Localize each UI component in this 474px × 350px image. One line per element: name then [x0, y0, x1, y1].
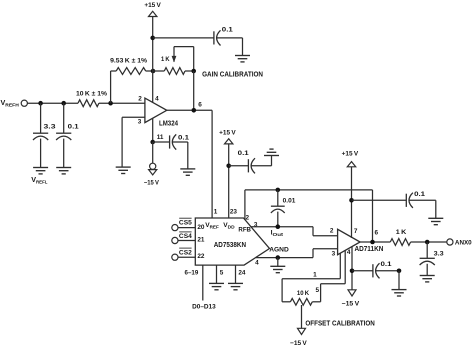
DAC U2 AD7538KN body [195, 218, 269, 265]
svg-text:1 K: 1 K [396, 229, 407, 236]
node A supply junction [150, 36, 155, 41]
pin 21 label U2 [197, 237, 205, 244]
capacitor C1 3.3 [33, 124, 56, 140]
terminal ANX0 [447, 239, 453, 245]
node G feedback-C7 [276, 188, 281, 193]
svg-text:6–19: 6–19 [185, 269, 199, 276]
wire U1 pin3 to ground [122, 117, 145, 167]
wire +15V to U3 pin7 [351, 167, 353, 238]
pin 4 label U2 [255, 259, 259, 266]
node H IOUT [276, 224, 281, 229]
node J AGND [276, 255, 281, 260]
node E output junction [192, 108, 197, 113]
node K supply junction [349, 198, 354, 203]
terminal CS2 [172, 254, 178, 260]
label IOUT [271, 230, 284, 239]
svg-text:CS2: CS2 [179, 249, 192, 256]
wire +15V to U2 pin23 [228, 144, 230, 218]
node VREFH-C1 [38, 101, 43, 106]
svg-text:+15 V: +15 V [219, 130, 236, 137]
wire C9 to ground [426, 264, 428, 276]
pin 6 label U3 [375, 230, 379, 237]
label CS5 [179, 218, 192, 226]
svg-text:10 K ± 1%: 10 K ± 1% [76, 90, 107, 97]
wire R1 to node B [146, 70, 153, 72]
ground at U1 pin3 [116, 167, 131, 173]
pin 22 label U2 [197, 253, 205, 260]
svg-text:4: 4 [155, 95, 159, 102]
svg-text:AGND: AGND [269, 247, 289, 254]
svg-text:3.3: 3.3 [434, 250, 444, 257]
op-amp U1 LM324 [145, 98, 178, 127]
wire C5 to ground [173, 142, 188, 169]
svg-text:10 K: 10 K [297, 290, 310, 297]
svg-text:5: 5 [220, 269, 224, 276]
wire U3 pin4 down [351, 246, 353, 289]
ground below C5 [180, 169, 195, 175]
pin 2 label U2 [246, 215, 250, 222]
svg-text:1: 1 [313, 271, 317, 278]
net VREFL label [31, 175, 47, 186]
svg-text:5: 5 [316, 287, 320, 294]
svg-text:−15 V: −15 V [144, 179, 160, 186]
svg-text:2: 2 [330, 228, 334, 235]
resistor R1 9.53K 1% [110, 58, 147, 75]
svg-text:ANX0: ANX0 [455, 239, 472, 246]
terminal CS4 [172, 237, 178, 243]
node inverting input [108, 101, 113, 106]
label CS2 [179, 248, 192, 256]
ground at U2 pin24 [228, 283, 243, 289]
node VREFH-C2 [61, 101, 66, 106]
svg-text:AD711KN: AD711KN [354, 244, 383, 253]
wire C8 to ground [409, 200, 436, 218]
svg-text:7: 7 [354, 228, 358, 235]
svg-text:4: 4 [255, 259, 259, 266]
svg-text:0.1: 0.1 [222, 27, 234, 34]
svg-text:CS4: CS4 [179, 233, 192, 240]
wire C6 to ground [251, 156, 271, 166]
node M pin4 junction [350, 269, 355, 274]
svg-text:3: 3 [254, 222, 258, 229]
svg-text:+15 V: +15 V [144, 2, 161, 9]
wire AGND to U3 pin3 [256, 249, 338, 258]
label OFFSET CALIBRATION [305, 318, 374, 327]
capacitor C10 0.1 [373, 261, 392, 279]
wire VREFH to R2 [27, 102, 78, 104]
ground below C1 [33, 168, 48, 174]
svg-text:24: 24 [238, 269, 246, 276]
wire R4 to ANX0 [411, 241, 447, 243]
pin 11 label U1 [157, 134, 164, 141]
power -15V at U3 [342, 290, 360, 308]
ground below C10 [392, 290, 407, 296]
label CS4 [179, 232, 192, 240]
capacitor C5 0.1 [170, 134, 190, 149]
terminal VREFH [21, 100, 27, 106]
svg-text:9.53 K ± 1%: 9.53 K ± 1% [110, 58, 147, 65]
potentiometer R5 10K [290, 290, 312, 305]
pin 3 label U2 [254, 222, 258, 229]
pot R3 wiper arrow [172, 56, 177, 63]
svg-text:21: 21 [197, 237, 205, 244]
wire R5 wiper down [301, 305, 303, 328]
bus D0-D13 pins 6-19 [185, 265, 217, 310]
svg-text:0.01: 0.01 [283, 198, 296, 205]
wire C10 to ground [376, 270, 399, 272]
svg-text:GAIN CALIBRATION: GAIN CALIBRATION [202, 70, 263, 79]
wire CS2 [178, 256, 195, 258]
pin AGND label U2 [269, 247, 289, 254]
svg-text:11: 11 [157, 134, 164, 141]
pin 6 label U1 [198, 101, 202, 108]
pin RFB label U2 [238, 226, 251, 233]
pin 3 label U1 [138, 118, 142, 125]
svg-text:20: 20 [197, 224, 205, 231]
power +15V at U2 [219, 130, 236, 144]
resistor R4 1K [390, 229, 410, 245]
node I feedback junction [370, 240, 375, 245]
pin 5 of U2 [217, 265, 224, 283]
wire node N down [398, 271, 400, 290]
svg-text:4: 4 [347, 249, 351, 256]
svg-text:3: 3 [138, 118, 142, 125]
wire CS5 [178, 227, 195, 229]
pin 24 of U2 [236, 265, 246, 283]
pin 4 label U3 [347, 249, 351, 256]
svg-text:0.1: 0.1 [178, 134, 190, 141]
ground below C8 [428, 218, 443, 224]
svg-text:+15 V: +15 V [342, 151, 359, 158]
node VDD junction [226, 164, 231, 169]
wire pin4 to C10 [352, 270, 373, 272]
power +15V at U3 [342, 151, 359, 167]
pot R3 wiper bracket [174, 47, 194, 71]
capacitor C4 0.1 [214, 27, 233, 46]
node B resistor junction [151, 69, 156, 74]
wire C4 to ground [217, 38, 243, 56]
capacitor C6 0.1 [238, 150, 255, 173]
wire R2 to LM324 pin2 [99, 102, 145, 104]
wire U1 pin11 down [152, 118, 154, 142]
svg-text:0.1: 0.1 [238, 150, 250, 157]
ground above C6 flipped [264, 149, 279, 155]
wire pin11 to C5 [153, 141, 170, 143]
pin 23 label U2 [230, 209, 238, 216]
svg-text:1 K: 1 K [161, 56, 170, 63]
wire node C to output node [193, 71, 195, 110]
label 1K [161, 56, 170, 63]
wire U3 pin5 to pot [312, 250, 345, 301]
pin VREF label U2 [205, 222, 219, 230]
ground below C4 [235, 56, 250, 62]
svg-text:D0–D13: D0–D13 [192, 304, 216, 311]
node N C10-ground [397, 269, 402, 274]
wire C7 to IOUT node [277, 212, 279, 227]
wire U3 output [360, 241, 390, 243]
label GAIN CALIBRATION [202, 70, 263, 79]
wire CS4 [178, 240, 195, 242]
svg-text:RFB: RFB [238, 226, 251, 233]
svg-text:LM324: LM324 [159, 120, 178, 127]
pin 1 label U3 [313, 271, 317, 278]
wire VDD to C6 [229, 165, 249, 167]
pin 2 label U1 [138, 96, 142, 103]
resistor R2 10K 1% [76, 90, 107, 106]
svg-text:3: 3 [332, 251, 336, 258]
wire U3 pin1 to pot [282, 253, 340, 302]
ground below C9 [420, 276, 435, 282]
svg-text:0.1: 0.1 [68, 124, 80, 131]
pin 7 label U3 [354, 228, 358, 235]
svg-text:0.1: 0.1 [381, 261, 393, 268]
power -15V at R5 wiper [290, 328, 307, 347]
capacitor 3.3 (C1) stem [40, 103, 42, 133]
wire C2 to ground [63, 139, 65, 168]
ground below C2 [56, 168, 71, 174]
wire IOUT to U3 pin2 [251, 227, 337, 236]
pin VDD label U2 [223, 222, 235, 230]
capacitor C2 0.1 [56, 124, 79, 140]
capacitor C9 3.3 [420, 242, 445, 265]
svg-text:6: 6 [375, 230, 379, 237]
capacitor C2 0.1 stem [63, 103, 65, 133]
power +15V top [144, 2, 161, 17]
svg-text:23: 23 [230, 209, 238, 216]
terminal CS5 [172, 225, 178, 231]
wire riser to R1 [111, 71, 117, 103]
wire node K to C8 [352, 199, 407, 201]
svg-text:1: 1 [214, 209, 218, 216]
svg-text:0.1: 0.1 [414, 191, 426, 198]
wire C1 to ground [40, 139, 42, 168]
svg-text:6: 6 [198, 101, 202, 108]
potentiometer R3 1K [153, 68, 194, 75]
power -15V below U1 [144, 142, 160, 186]
wire node A to C4 [153, 37, 214, 39]
pin 5 label U3 [316, 287, 320, 294]
svg-text:CS5: CS5 [179, 219, 192, 226]
svg-text:22: 22 [197, 253, 205, 260]
node C pot output [191, 69, 196, 74]
svg-text:−15 V: −15 V [342, 300, 360, 307]
capacitor C8 0.1 [406, 191, 425, 208]
label ANX0 [455, 239, 472, 246]
svg-text:3.3: 3.3 [44, 124, 57, 131]
wire AGND to ground [277, 258, 279, 267]
svg-text:2: 2 [138, 96, 142, 103]
svg-text:2: 2 [246, 215, 250, 222]
wire +15V rail down to LM324 pin4 [152, 17, 154, 103]
wire RFB feedback loop [245, 190, 373, 242]
pin 4 label U1 [155, 95, 159, 102]
ground at U2 pin5 [209, 283, 224, 289]
pin 3 label U3 [332, 251, 336, 258]
pin 1 label U2 [214, 209, 218, 216]
svg-text:AD7538KN: AD7538KN [214, 240, 246, 249]
net VREFH input label [1, 98, 20, 109]
ground at AGND [270, 266, 285, 272]
capacitor C7 0.01 [271, 190, 296, 213]
node F pin11 junction [150, 140, 155, 145]
op-amp U3 AD711KN [338, 229, 384, 254]
svg-text:OFFSET CALIBRATION: OFFSET CALIBRATION [305, 318, 374, 327]
svg-text:−15 V: −15 V [290, 340, 307, 347]
wire U1 output to AD7538 VREF [167, 110, 212, 218]
pin 20 label U2 [197, 224, 205, 231]
pin 2 label U3 [330, 228, 334, 235]
node L output [425, 240, 430, 245]
